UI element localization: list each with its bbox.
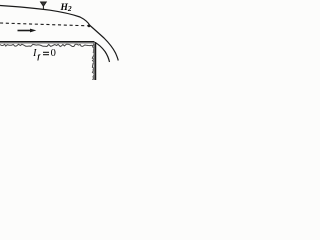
svg-text:H2: H2 <box>60 3 72 13</box>
